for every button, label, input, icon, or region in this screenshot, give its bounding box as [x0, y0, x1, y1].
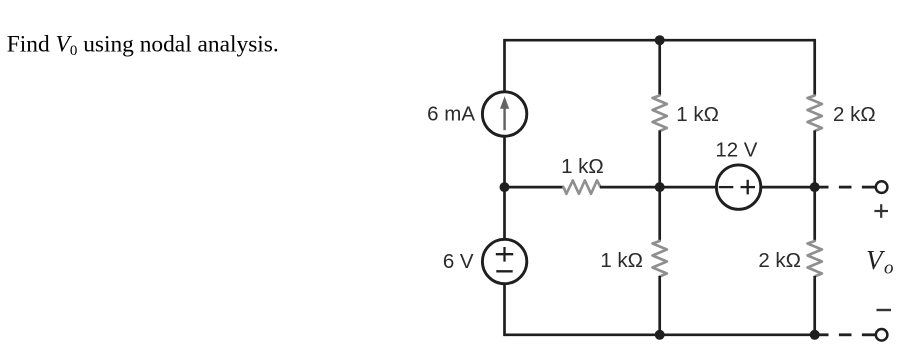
wire voltage source V2 to node C	[760, 186, 815, 189]
resistor R1 1 kOhm horizontal	[564, 180, 601, 193]
wire node A to resistor R1	[505, 186, 565, 189]
wire middle rail: resistor R3 to bottom node	[658, 276, 661, 335]
wire middle rail: top node to resistor R2	[658, 40, 661, 96]
wire top horizontal	[505, 39, 815, 42]
svg-text:1 kΩ: 1 kΩ	[561, 155, 604, 178]
junction dot bottom right node	[810, 330, 820, 340]
svg-text:1 kΩ: 1 kΩ	[600, 249, 643, 272]
wire resistor R1 to node B	[600, 186, 660, 189]
terminal bottom output open circle	[876, 329, 888, 341]
resistor R3 1 kOhm vertical bottom middle	[653, 241, 667, 277]
value label 6 mA	[427, 103, 475, 126]
wire middle rail: node B to resistor R3	[658, 187, 661, 241]
wire bottom horizontal	[505, 333, 815, 336]
wire left rail: voltage source to bottom corner	[503, 283, 506, 337]
current source I1 6 mA	[482, 92, 526, 136]
voltage source V2 12 V	[716, 165, 760, 209]
svg-text:V: V	[866, 245, 886, 275]
voltage source V1 6 V	[482, 239, 526, 283]
value label 2 kOhm (R4)	[833, 103, 876, 126]
problem statement text	[7, 32, 279, 60]
resistor R4 2 kOhm vertical top right	[808, 96, 822, 132]
wire middle rail: resistor R2 to node B	[658, 131, 661, 188]
wire dashed bottom output lead	[817, 333, 875, 336]
label Vo output voltage	[866, 245, 894, 279]
wire right rail: resistor R5 to bottom node	[813, 276, 816, 335]
wire left rail: node A to voltage source	[503, 187, 506, 240]
value label 1 kOhm (R3)	[600, 249, 643, 272]
svg-text:1 kΩ: 1 kΩ	[676, 103, 719, 126]
svg-text:6 mA: 6 mA	[427, 103, 475, 126]
svg-text:2 kΩ: 2 kΩ	[758, 249, 801, 272]
wire right rail: resistor R4 to node C	[813, 131, 816, 188]
value label 6 V	[443, 250, 474, 273]
svg-text:Find V0 using nodal analysis.: Find V0 using nodal analysis.	[7, 32, 279, 60]
svg-text:o: o	[884, 258, 894, 279]
wire right rail: node C to resistor R5	[813, 187, 816, 241]
node C junction dot	[810, 182, 820, 192]
label plus terminal	[874, 204, 888, 218]
value label 1 kOhm (R1)	[561, 155, 604, 178]
value label 1 kOhm (R2)	[676, 103, 719, 126]
wire right rail: top corner to resistor R4	[813, 39, 816, 96]
wire left rail: top corner to current source	[503, 39, 506, 93]
junction dot bottom middle node	[655, 330, 665, 340]
resistor R5 2 kOhm vertical bottom right	[808, 241, 822, 277]
junction dot top middle node	[655, 35, 665, 45]
node A junction dot	[500, 182, 510, 192]
wire dashed top output lead	[817, 186, 875, 189]
node B junction dot	[655, 182, 665, 192]
label minus terminal	[877, 309, 892, 311]
terminal top output open circle	[876, 181, 888, 193]
resistor R2 1 kOhm vertical top middle	[653, 96, 667, 132]
svg-text:12 V: 12 V	[715, 139, 757, 162]
value label 2 kOhm (R5)	[758, 249, 801, 272]
value label 12 V	[715, 139, 757, 162]
wire node B to voltage source V2	[660, 186, 718, 189]
wire left rail: current source to node A	[503, 135, 506, 187]
svg-text:2 kΩ: 2 kΩ	[833, 103, 876, 126]
svg-text:6 V: 6 V	[443, 250, 474, 273]
